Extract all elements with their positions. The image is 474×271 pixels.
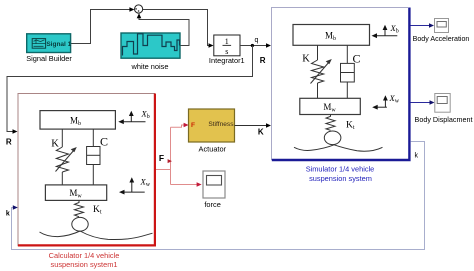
svg-text:suspension system1: suspension system1 xyxy=(51,260,118,269)
svg-text:q: q xyxy=(255,37,259,44)
svg-text:Stiffness: Stiffness xyxy=(208,121,234,128)
svg-text:Integrator1: Integrator1 xyxy=(209,56,245,65)
arrowhead into Integrator1 xyxy=(209,43,214,48)
node F branch xyxy=(168,159,172,163)
calculator Xb arrow xyxy=(122,114,146,122)
svg-text:K: K xyxy=(258,128,264,137)
svg-text:C: C xyxy=(100,135,108,149)
svg-text:C: C xyxy=(352,52,360,66)
simulator Xb arrow xyxy=(375,28,398,36)
scope force xyxy=(203,171,225,198)
subsystem Calculator box xyxy=(18,94,156,247)
junction node q/R xyxy=(251,44,254,47)
wire R feedback to Calculator xyxy=(7,46,253,132)
calculator Xw arrow xyxy=(122,181,145,193)
svg-text:k: k xyxy=(414,153,418,160)
svg-text:k: k xyxy=(6,211,10,218)
wire Actuator to Simulator (K) xyxy=(235,125,269,127)
svg-text:R: R xyxy=(6,138,12,147)
wire Simulator to Body Acceleration xyxy=(411,25,431,27)
calculator spring K1 xyxy=(75,200,84,216)
block Actuator (Stiffness) xyxy=(189,109,235,142)
svg-text:1: 1 xyxy=(225,37,229,46)
wire Integrator1 to Simulator (q) xyxy=(240,45,268,47)
svg-text:Simulator 1/4 vehicle: Simulator 1/4 vehicle xyxy=(306,165,375,174)
arrowhead into Actuator xyxy=(184,123,189,128)
svg-text:Signal 1: Signal 1 xyxy=(46,41,71,48)
simulator mass Mb xyxy=(293,25,370,46)
wire k feedback from Simulator to Calculator xyxy=(12,142,425,250)
arrowhead into Simulator K input xyxy=(266,123,271,128)
block white noise xyxy=(121,33,180,58)
block Integrator1 xyxy=(214,35,240,56)
simulator road xyxy=(294,145,383,151)
simulator mass Mw xyxy=(300,98,361,114)
calculator wheel xyxy=(72,217,88,231)
svg-text:Body Acceleration: Body Acceleration xyxy=(413,35,470,43)
svg-text:Signal Builder: Signal Builder xyxy=(26,54,72,63)
sum block xyxy=(135,5,143,13)
svg-text:Calculator 1/4 vehicle: Calculator 1/4 vehicle xyxy=(49,251,120,260)
calculator spring K xyxy=(56,129,75,185)
simulator spring K xyxy=(311,45,330,98)
arrowhead into Body Acceleration xyxy=(429,23,434,28)
arrowhead into Calculator R input xyxy=(13,129,18,134)
scope Body Acceleration xyxy=(435,19,449,33)
svg-text:F: F xyxy=(159,153,164,163)
calculator road xyxy=(40,231,153,240)
svg-text:suspension system: suspension system xyxy=(309,174,372,183)
wire Simulator to Body Displacment xyxy=(411,102,432,104)
simulator wheel xyxy=(324,131,341,145)
simulator Xw arrow xyxy=(375,99,387,108)
arrowhead into sum left xyxy=(129,7,134,12)
arrowhead into Simulator R input xyxy=(266,43,271,48)
simulator damper C xyxy=(341,45,355,98)
svg-text:K: K xyxy=(302,54,310,65)
svg-text:R: R xyxy=(260,56,266,65)
calculator mass Mb xyxy=(40,111,115,130)
svg-text:white noise: white noise xyxy=(131,62,169,71)
arrowhead into Calculator k input xyxy=(13,205,18,210)
block Signal Builder xyxy=(27,34,72,53)
arrowhead into sum bottom xyxy=(137,13,142,18)
scope Body Displacment xyxy=(435,94,450,113)
svg-text:s: s xyxy=(225,47,228,56)
svg-text:Body Displacment: Body Displacment xyxy=(415,115,473,124)
svg-text:Actuator: Actuator xyxy=(199,145,227,154)
arrowhead into Body Displacment xyxy=(430,100,435,105)
wire F from Calculator to branch xyxy=(156,125,198,185)
wire Signal Builder to Sum xyxy=(71,10,132,44)
simulator spring K1 xyxy=(326,115,335,131)
arrowhead into force scope xyxy=(197,182,202,187)
svg-text:F: F xyxy=(191,122,195,129)
calculator mass Mw xyxy=(45,185,106,201)
svg-text:K: K xyxy=(51,139,59,150)
subsystem Simulator box xyxy=(272,8,411,161)
calculator damper C xyxy=(87,129,100,185)
wire Sum to Integrator1 xyxy=(143,10,211,46)
svg-text:force: force xyxy=(204,200,220,209)
wire white noise to Sum xyxy=(139,17,189,46)
